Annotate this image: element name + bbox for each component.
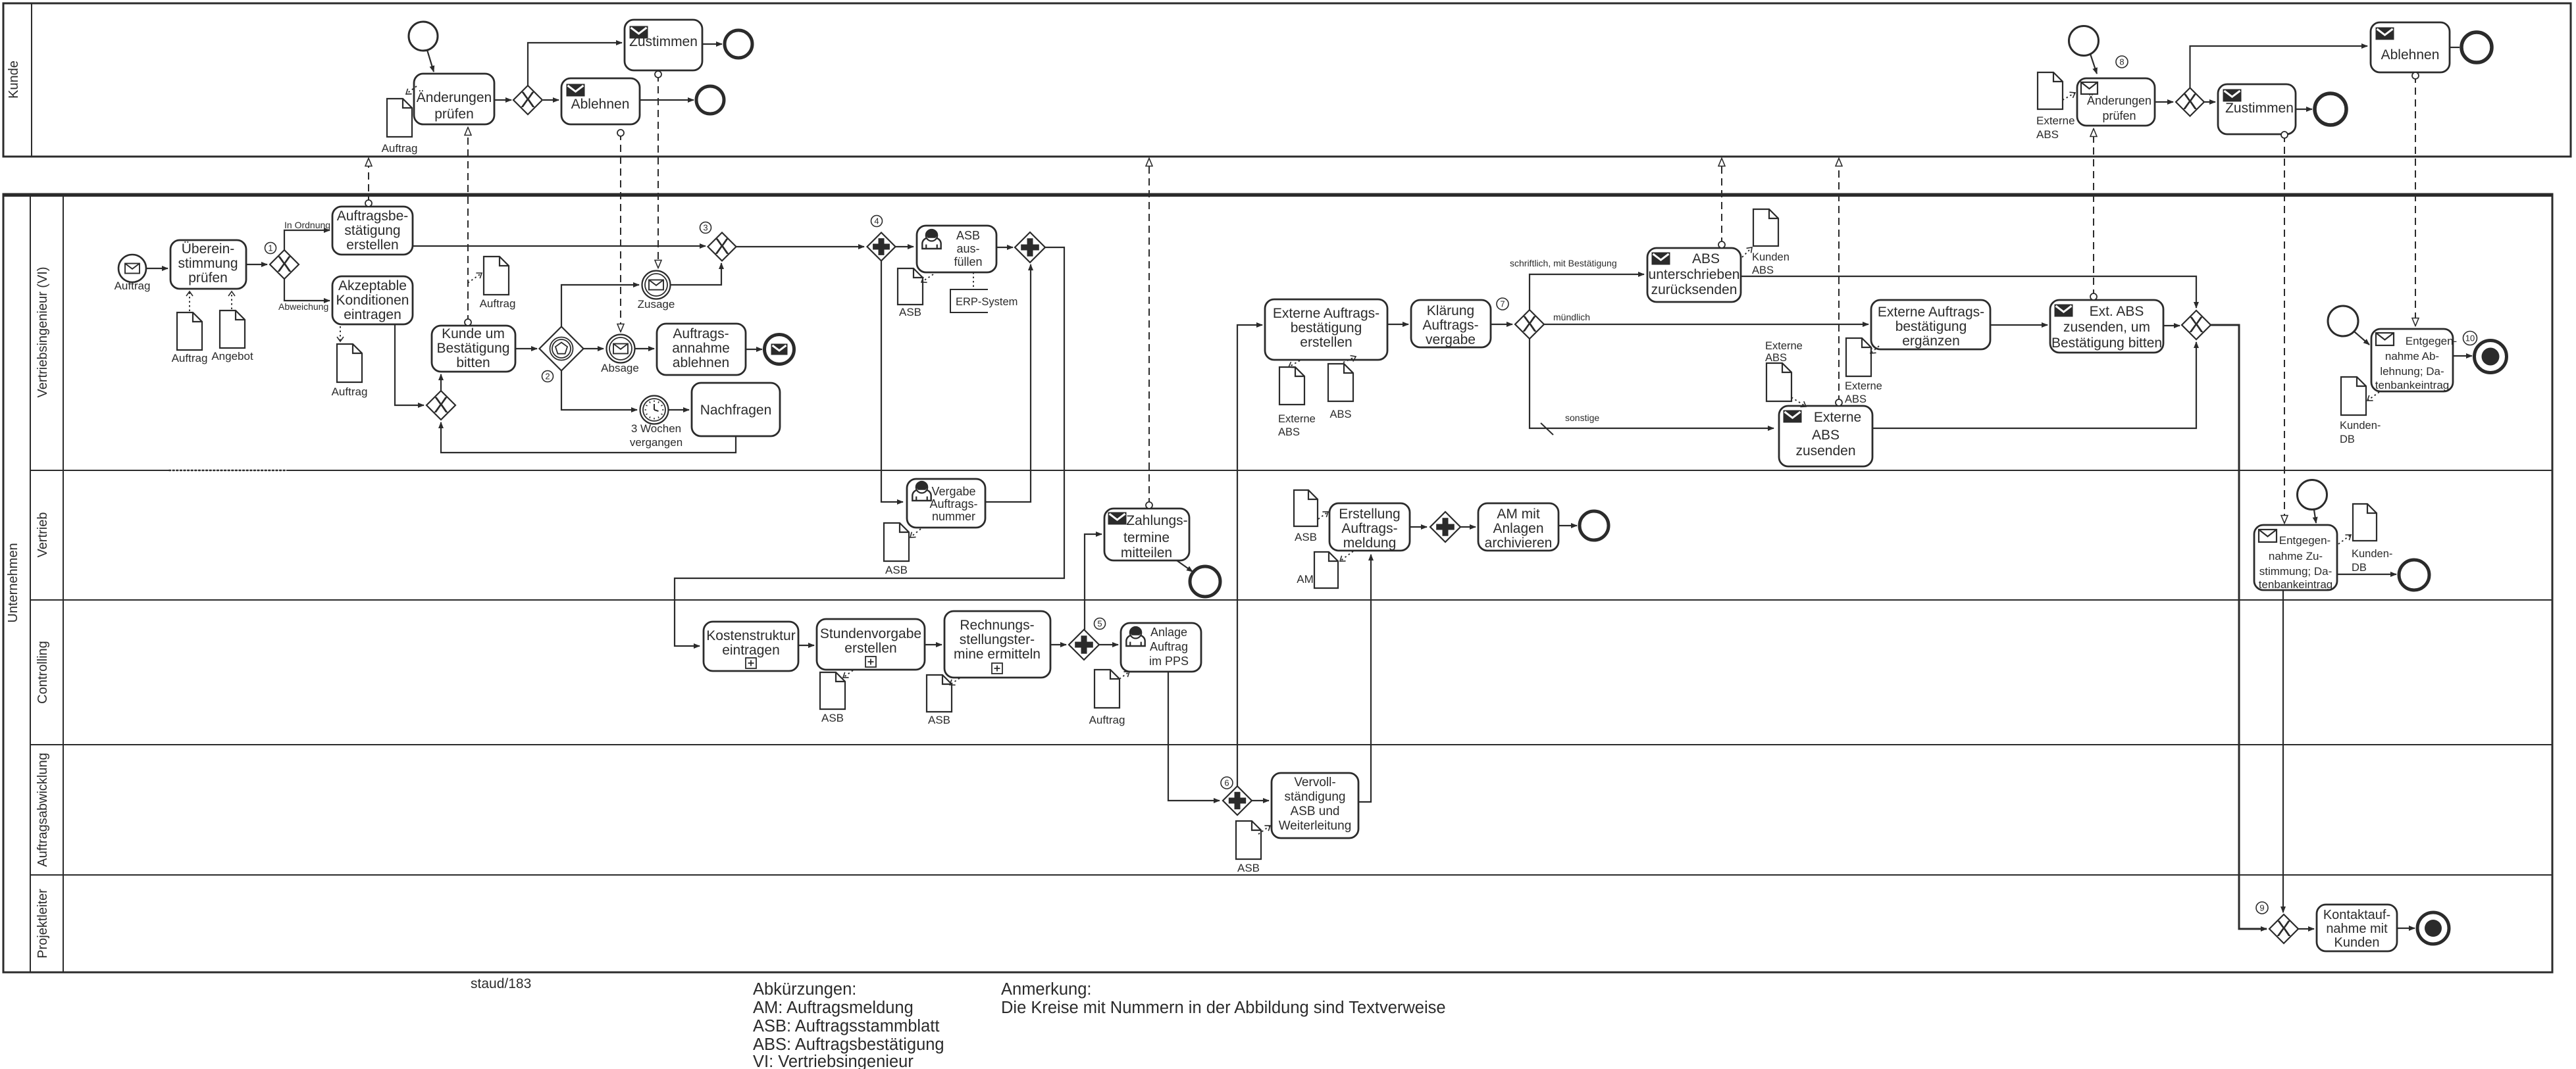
flow gateway9 to Kontaktaufnahme [2298,928,2314,930]
svg-text:schriftlich, mit Bestätigung: schriftlich, mit Bestätigung [1510,258,1617,268]
message start event Auftrag [115,255,151,292]
svg-text:füllen: füllen [954,255,982,268]
svg-text:X: X [2182,89,2198,114]
task Kontaktaufnahme mit Kunden [2317,905,2397,951]
svg-text:nahme mit: nahme mit [2326,922,2388,936]
lane Vertrieb [30,512,2552,600]
label sonstige [1565,412,1599,423]
svg-text:AM mit: AM mit [1497,507,1539,522]
svg-text:ABS: ABS [1329,409,1351,420]
svg-text:Auftrag: Auftrag [115,280,151,292]
subprocess Rechnungsstellungstermine ermitteln [944,611,1050,678]
svg-text:Auftrag: Auftrag [480,297,516,310]
flow task to gateway right [2155,101,2173,103]
gateway 6 parallel [1221,777,1252,815]
intermediate message event Zusage [638,271,675,311]
association Auftrag to Aenderungen pruefen [406,86,417,94]
gateway 9 [2256,902,2298,943]
flow start to Aenderungen pruefen 8 [2090,54,2097,74]
lane Auftragsabwicklung [30,753,2552,875]
svg-text:X: X [1522,312,1537,337]
data object Auftrag under Akzeptable [332,344,368,398]
end event after Ablehnen left [696,86,724,114]
svg-text:Weiterleitung: Weiterleitung [1279,819,1352,833]
svg-text:stimmung; Da-: stimmung; Da- [2259,565,2332,578]
svg-text:Kontaktauf-: Kontaktauf- [2323,908,2390,922]
flow Entgegennahme Ablehnung to terminate [2453,355,2472,357]
svg-text:Kunden-: Kunden- [2352,548,2392,560]
svg-text:Kunden-: Kunden- [2340,420,2381,432]
svg-text:X: X [2189,312,2204,337]
svg-text:lehnung; Da-: lehnung; Da- [2380,365,2444,378]
task Aenderungen pruefen (Kunde left) [414,74,494,124]
svg-text:Abkürzungen:: Abkürzungen: [753,980,856,999]
svg-text:eintragen: eintragen [722,643,780,658]
data object Externe ABS 3 [1765,340,1803,401]
svg-text:Stundenvorgabe: Stundenvorgabe [820,626,921,641]
flow Zahlungstermine to end [1177,560,1193,572]
svg-text:Externe Auftrags-: Externe Auftrags- [1273,306,1379,321]
flow Aenderungen pruefen to gateway [494,99,511,101]
end terminate event [2475,341,2507,373]
data object ASB under Rechnungsstellungstermine [927,675,952,726]
message flow ABS unterschrieben to Kunde pool [1718,159,1725,248]
flow Ext ABS zusenden to gateway [2163,325,2180,326]
data object Kunden ABS [1752,209,1790,276]
svg-text:2: 2 [545,372,550,382]
svg-text:nahme Ab-: nahme Ab- [2385,350,2439,362]
svg-text:Anmerkung:: Anmerkung: [1001,980,1092,999]
association Angebot up [231,291,232,309]
gateway X (Kunde left) [513,86,542,114]
task Entgegennahme Ablehnung [2371,329,2457,391]
association ABS unterschrieben to Kunden ABS [1742,247,1752,257]
svg-text:Bestätigung: Bestätigung [437,341,510,356]
pool Unternehmen [3,194,2552,972]
data object ASB under Vergabe [884,523,909,576]
svg-text:X: X [434,393,449,418]
svg-text:Entgegen-: Entgegen- [2279,534,2331,547]
svg-text:X: X [715,234,730,259]
svg-text:ABS: ABS [1752,264,1774,276]
flow AM mit Anlagen to end [1558,525,1577,526]
svg-text:zusenden: zusenden [1795,443,1855,459]
svg-text:ABS: ABS [1812,428,1840,443]
flow Absage to Auftragsannahme ablehnen [635,348,654,349]
task Entgegennahme Zustimmung [2254,525,2337,591]
svg-text:X: X [277,252,292,277]
svg-text:7: 7 [1500,299,1505,309]
svg-text:Auftrag: Auftrag [1150,640,1188,653]
flow start to Entgegennahme Zustimmung [2314,510,2316,523]
flow gateway1 up to Auftragsbestaetigung erstellen [284,230,330,250]
task Zustimmen (Kunde right) [2218,84,2296,134]
flow gateway5 up to Zahlungstermine [1085,534,1102,630]
message flow Zusage dashed [655,71,661,268]
association Vergabe to ASB doc [910,529,921,537]
task Nachfragen [692,383,780,436]
svg-text:Bestätigung bitten: Bestätigung bitten [2051,336,2162,351]
svg-text:Kunden: Kunden [1752,251,1790,263]
start event (Kunde right) [2069,26,2099,56]
svg-text:ERP-System: ERP-System [956,296,1018,308]
svg-text:ASB und: ASB und [1291,805,1340,818]
association ASB to Erstellung [1318,512,1328,519]
end terminate event Projektleiter [2417,912,2449,944]
svg-text:ASB: ASB [899,306,921,318]
svg-text:prüfen: prüfen [434,107,474,122]
task Uebereinstimmung pruefen [170,240,246,289]
task Externe Auftragsbestaetigung ergaenzen [1871,300,1990,349]
flow Zusage to gateway3 [671,263,721,285]
svg-text:X: X [521,87,536,112]
task ABS unterschrieben zuruecksenden [1647,248,1741,302]
data object ASB under Stundenvorgabe [820,672,845,724]
task Ablehnen (Kunde left) [561,78,640,124]
svg-text:Abweichung: Abweichung [278,301,328,312]
svg-text:im PPS: im PPS [1149,655,1189,668]
default marker sonstige [1541,423,1553,435]
association Erstellung to AM doc [1340,551,1353,561]
flow Entgegennahme Zustimmung to end [2337,574,2396,575]
gateway 1 [265,243,299,280]
flow T19 to Klaerung [1387,324,1408,325]
flow gateway to AM mit Anlagen [1460,526,1476,528]
flow gateway7 up to ABS unterschrieben [1530,274,1644,310]
svg-text:zusenden, um: zusenden, um [2063,320,2150,335]
svg-text:4: 4 [874,216,879,226]
association Auftrag to Anlage [1120,672,1129,679]
gateway parallel join [1015,232,1045,262]
svg-text:AM: Auftragsmeldung: AM: Auftragsmeldung [753,999,914,1017]
flow Auftragsbestaetigung erstellen to gateway3 [413,245,706,247]
flow gateway7 down to Externe ABS zusenden [1530,339,1774,428]
gateway X VI right [2182,311,2211,339]
svg-text:Ablehnen: Ablehnen [2381,47,2440,62]
svg-text:Akzeptable: Akzeptable [338,278,407,293]
flow Ablehnen to end [640,99,694,101]
svg-text:Auftrag: Auftrag [382,142,418,155]
association Akzeptable to Auftrag doc [340,326,341,341]
svg-text:Controlling: Controlling [36,641,50,704]
label In Ordnung [284,220,330,230]
svg-text:Anlagen: Anlagen [1493,521,1543,536]
svg-text:ASB: ASB [956,229,980,242]
gateway parallel Vertrieb [1430,512,1460,542]
data object Auftrag (message) [480,257,516,310]
flow gateway to Ablehnen right [2190,46,2368,87]
svg-text:ASB: ASB [885,564,908,576]
flow gateway VI right down to Projektleiter [2211,325,2267,929]
svg-text:mündlich: mündlich [1553,312,1590,322]
svg-text:ABS: Auftragsbestätigung: ABS: Auftragsbestätigung [753,1035,944,1054]
svg-text:Externe: Externe [1765,340,1803,352]
svg-text:Änderungen: Änderungen [417,90,492,105]
association ASB to Vervollstaendigung [1258,826,1270,834]
flow Vergabe to join up [985,264,1031,502]
association Externe ABS to task [2063,93,2075,100]
flow gateway4 to ASB ausfuellen [895,246,914,247]
svg-text:Überein-: Überein- [182,241,235,257]
svg-text:stellungster-: stellungster- [960,632,1035,647]
end event after Ablehnen right [2461,32,2492,62]
svg-text:Vertrieb: Vertrieb [36,512,50,558]
task ASB ausfuellen [917,226,996,272]
flow Akzeptable to gateway X [395,324,424,405]
flow start to Entgegennahme Ablehnung [2354,332,2369,345]
svg-text:bitten: bitten [456,355,490,370]
label muendlich [1553,312,1590,322]
svg-text:ASB: ASB [821,712,844,724]
svg-text:AM: AM [1297,573,1314,585]
data object ASB under ASB ausfuellen [898,268,923,318]
svg-text:8: 8 [2119,57,2124,67]
svg-text:Auftrag: Auftrag [172,352,208,364]
association Kunden-DB to Entgegennahme Ablehnung [2367,392,2379,401]
task Vergabe Auftragsnummer [907,479,985,528]
flow Vervollstaendigung up to Erstellung [1358,555,1371,802]
label 8 [2116,56,2128,68]
flow event gateway to Absage [584,348,604,349]
association T19 to Externe ABS [1289,360,1300,367]
end event after AM mit Anlagen [1580,511,1609,540]
svg-text:staud/183: staud/183 [471,976,531,991]
message flow Zustimmen right to Entgegennahme Zustimmung [2281,132,2288,523]
flow Kontaktaufnahme to terminate [2397,928,2415,929]
svg-text:Zustimmen: Zustimmen [629,34,698,49]
data object ASB before Erstellung [1294,490,1318,543]
message flow Ablehnen right to Entgegennahme Ablehnung [2412,72,2419,326]
svg-text:bestätigung: bestätigung [1291,320,1362,336]
svg-text:Vertriebsingenieur (VI): Vertriebsingenieur (VI) [36,267,50,398]
data object Auftrag (Kunde left) [382,99,418,155]
svg-text:aus-: aus- [956,242,979,255]
svg-text:erstellen: erstellen [346,237,398,253]
svg-text:Zahlungs-: Zahlungs- [1126,513,1187,528]
svg-text:Externe: Externe [1278,413,1316,425]
flow ABS unterschrieben to gateway X right top [1741,276,2196,308]
task Anlage Auftrag im PPS [1121,623,1201,672]
message flow Ext ABS zusenden to Aenderungen pruefen 8 [2090,129,2097,300]
svg-text:1: 1 [268,243,272,253]
svg-text:Erstellung: Erstellung [1339,507,1400,522]
svg-text:Änderungen: Änderungen [2087,94,2151,107]
svg-text:ablehnen: ablehnen [673,355,729,370]
svg-text:nahme Zu-: nahme Zu- [2269,550,2323,562]
svg-text:Vervoll-: Vervoll- [1294,776,1335,789]
svg-text:prüfen: prüfen [2102,109,2136,122]
task Ablehnen (Kunde right) [2371,22,2450,72]
gateway 4 parallel [867,216,896,261]
flow ergaenzen to Ext ABS zusenden [1990,324,2048,326]
svg-text:Auftrag: Auftrag [332,385,368,398]
flow Erstellung to gateway [1410,526,1427,528]
event gateway 2 [540,327,584,382]
start event Vertrieb right [2298,480,2327,510]
message flow Absage dashed [617,130,624,332]
svg-text:Auftrags-: Auftrags- [673,326,729,341]
flow gateway4 down to Vergabe Auftragsnummer [881,261,903,502]
svg-text:ABS: ABS [1765,352,1787,364]
flow Zustimmen to end [702,43,722,45]
task Vervollstaendigung ASB und Weiterleitung [1272,773,1358,838]
svg-text:Anlage: Anlage [1150,626,1187,639]
svg-text:Zusage: Zusage [638,298,675,311]
svg-text:Externe: Externe [1814,410,1861,425]
data object Kunden-DB (VI) [2340,377,2381,445]
flow event gateway up to Zusage [561,285,639,327]
flow gateway7 to Externe Auftragsbestaetigung ergaenzen [1544,324,1868,325]
flow Klaerung to gateway7 [1491,324,1512,325]
svg-text:Unternehmen: Unternehmen [6,543,20,622]
svg-text:Externe: Externe [2036,114,2075,127]
task Kunde um Bestaetigung bitten [432,326,515,372]
svg-text:VI: Vertriebsingenieur: VI: Vertriebsingenieur [753,1053,914,1069]
start event VI right [2328,306,2358,336]
svg-text:Kunde um: Kunde um [442,326,505,341]
svg-text:3: 3 [703,223,708,233]
flow Rechnungsstellungstermine to gateway5 [1050,644,1066,645]
association Auftrag up [189,291,190,311]
task Zahlungstermine mitteilen [1104,509,1189,560]
flow gateway to Zustimmen right [2204,101,2215,103]
svg-text:Auftrags-: Auftrags- [929,497,977,510]
message flow Kunde um Bestaetigung to Aenderungen pruefen [465,128,471,326]
flow timer to Nachfragen [669,409,689,410]
flow join to Kostenstruktur [675,247,1064,646]
message end event after Auftragsannahme ablehnen [765,335,794,364]
end event after Zahlungstermine [1190,566,1220,597]
svg-text:ständigung: ständigung [1285,790,1346,804]
association ASB ausfuellen to ASB doc [921,274,933,282]
flow gateway X up to Kunde um Bestaetigung [440,374,442,391]
flow Nachfragen feedback to gateway X [441,422,736,453]
flow start to Aenderungen pruefen [427,50,434,72]
text staud/183 [471,976,531,991]
start event (Kunde left) [409,22,438,51]
task Ext ABS zusenden um Bestaetigung bitten [2050,300,2163,353]
label 10 [2463,332,2477,345]
task Auftragsannahme ablehnen [657,324,746,375]
svg-text:ergänzen: ergänzen [1902,334,1960,349]
flow start to Uebereinstimmung pruefen [146,268,168,269]
svg-text:Die Kreise mit Nummern in der: Die Kreise mit Nummern in der Abbildung … [1001,999,1446,1017]
svg-text:Auftrags-: Auftrags- [1341,521,1397,536]
label Abweichung [278,301,328,312]
svg-text:Vergabe: Vergabe [931,485,975,498]
association message Auftrag [468,273,482,283]
svg-text:ASB: ASB [1295,531,1317,543]
message flow Externe ABS zusenden to Kunde pool [1836,159,1842,406]
data object ASB under gateway6 [1236,821,1261,874]
association Rechnungsstellungstermine to ASB [950,678,960,685]
data object Externe ABS (Kunde right) [2036,72,2075,141]
flow gateway6 to Vervollstaendigung [1252,800,1269,801]
svg-text:Auftragsbe-: Auftragsbe- [337,209,409,224]
end event after Zustimmen right [2315,93,2346,125]
svg-text:Nachfragen: Nachfragen [700,403,772,418]
svg-text:bestätigung: bestätigung [1895,319,1967,334]
flow task1 to gateway1 [246,264,267,265]
flow gateway1 down to Akzeptable Konditionen [284,279,330,301]
task AM mit Anlagen archivieren [1478,503,1558,551]
data object Kunden-DB (Vertrieb) [2352,504,2392,574]
flow ASB ausfuellen to join [996,247,1013,248]
svg-text:mitteilen: mitteilen [1121,545,1172,560]
svg-text:ASB: ASB [928,714,950,726]
svg-text:Ext. ABS: Ext. ABS [2090,304,2144,319]
svg-text:zurücksenden: zurücksenden [1651,282,1738,297]
data object Externe ABS under T19 [1278,367,1316,438]
task Auftragsbestaetigung erstellen [332,207,413,255]
svg-text:prüfen: prüfen [188,270,228,286]
subprocess Stundenvorgabe erstellen [817,619,925,670]
svg-text:Absage: Absage [601,362,639,374]
flow Ablehnen right to end [2450,47,2460,48]
flow Anlage Auftrag down to gateway6 [1168,672,1220,801]
label schriftlich mit Bestaetigung [1510,258,1617,268]
task Akzeptable Konditionen eintragen [332,276,413,324]
flow gateway5 to Anlage Auftrag [1099,644,1118,645]
gateway 3 [700,222,736,261]
svg-text:ABS: ABS [1692,251,1720,266]
svg-text:Kostenstruktur: Kostenstruktur [706,628,795,643]
task Externe ABS zusenden [1779,406,1872,466]
svg-text:archivieren: archivieren [1485,535,1553,551]
legend Abkuerzungen [753,980,944,1069]
svg-text:3 Wochen: 3 Wochen [631,422,681,435]
svg-text:erstellen: erstellen [844,641,896,656]
svg-text:ABS: ABS [1845,393,1867,405]
end event after Entgegennahme Zustimmung [2399,560,2429,590]
flow event gateway to timer [561,371,637,410]
pool Kunde [3,3,2571,157]
task Klaerung Auftragsvergabe [1411,300,1491,347]
message flow Zahlungstermine to Kunde pool [1146,159,1152,509]
data object Externe ABS 2 [1845,338,1882,405]
svg-text:Kunden: Kunden [2334,935,2380,950]
data object Auftrag under task1 [172,312,208,364]
association ergaenzen to Externe ABS 2 [1870,346,1879,353]
lane Projektleiter [36,889,50,958]
svg-text:tenbankeintrag: tenbankeintrag [2375,379,2449,391]
svg-text:ABS: ABS [2036,128,2059,141]
svg-text:ASB: ASB [1237,862,1260,874]
flow Zustimmen right to end [2296,109,2312,110]
flow gateway to Zustimmen [528,43,622,86]
svg-text:9: 9 [2259,903,2264,913]
annotation ERP-System [950,289,1018,312]
association ASB ausfuellen to ERP-System [973,272,974,288]
data object ABS under T19 [1328,364,1353,420]
flow gateway to Ablehnen [543,99,559,101]
flow gateway3 to gateway4 [736,246,864,247]
svg-text:ASB: Auftragsstammblatt: ASB: Auftragsstammblatt [753,1017,939,1035]
association Stundenvorgabe to ASB [843,670,853,678]
svg-text:Auftrag: Auftrag [1089,714,1125,726]
svg-text:Externe: Externe [1845,380,1882,392]
svg-text:In Ordnung: In Ordnung [284,220,330,230]
lane Controlling [30,641,2552,745]
flow Stundenvorgabe to Rechnungsstellungstermine [925,644,942,645]
task Erstellung Auftragsmeldung [1329,503,1410,551]
flow gateway6 up to Externe Auftragsbestaetigung erstellen [1237,325,1262,786]
data object AM under Erstellung [1297,552,1338,588]
svg-text:DB: DB [2340,434,2355,445]
svg-text:tenbankeintrag: tenbankeintrag [2259,578,2332,591]
association Externe ABS 3 to task [1791,397,1806,407]
svg-text:Zustimmen: Zustimmen [2225,101,2294,116]
